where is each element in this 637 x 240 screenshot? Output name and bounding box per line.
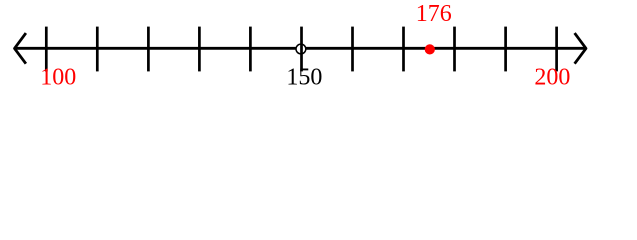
tick 150: [300, 27, 303, 72]
tick 100: [45, 27, 48, 72]
number line axis: [16, 47, 585, 50]
open circle at 150: [296, 44, 306, 54]
svg-text:200: 200: [534, 65, 570, 91]
svg-text:150: 150: [286, 65, 322, 91]
tick 170: [402, 27, 405, 72]
svg-text:100: 100: [40, 65, 76, 91]
tick 190: [504, 27, 507, 72]
tick 110: [96, 27, 99, 72]
tick 160: [351, 27, 354, 72]
plotted point at 176: [425, 44, 435, 54]
tick 200: [555, 27, 558, 72]
svg-text:176: 176: [416, 1, 452, 27]
tick 120: [147, 27, 150, 72]
tick 180: [453, 27, 456, 72]
left arrowhead: [15, 33, 26, 64]
right arrowhead: [575, 33, 586, 64]
tick 130: [198, 27, 201, 72]
tick 140: [249, 27, 252, 72]
